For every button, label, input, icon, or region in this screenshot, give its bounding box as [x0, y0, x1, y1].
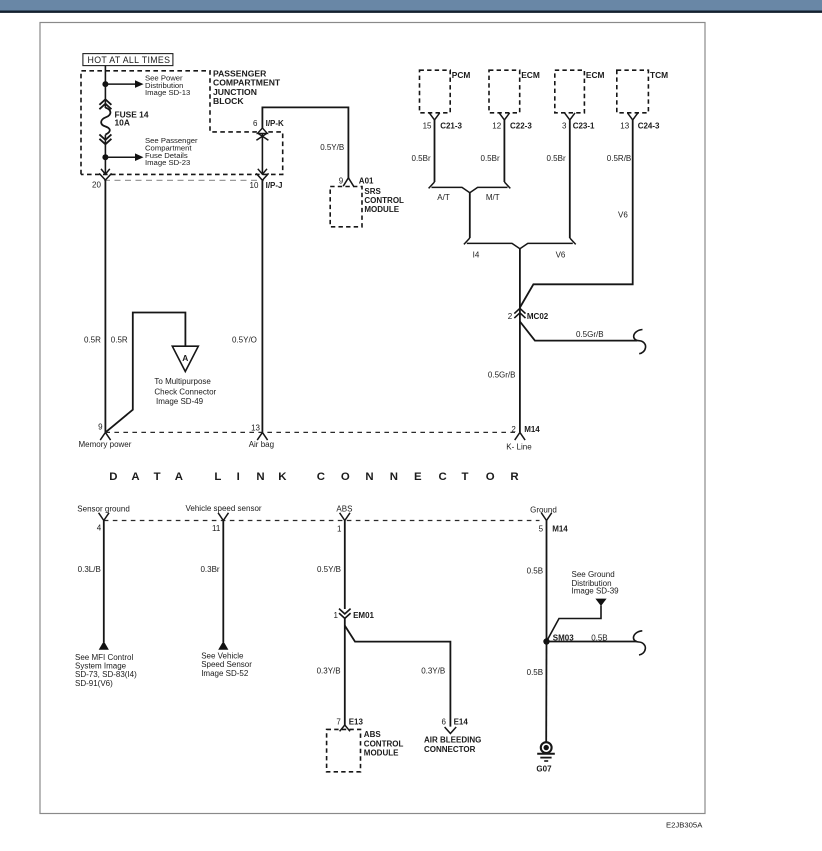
svg-text:15: 15	[423, 121, 432, 130]
svg-text:ABS: ABS	[364, 730, 382, 739]
wire 0.5B down to G07	[545, 642, 547, 742]
svg-text:0.5Br: 0.5Br	[547, 154, 566, 163]
svg-text:CONTROL: CONTROL	[364, 196, 404, 205]
svg-text:See Ground: See Ground	[572, 570, 615, 579]
svg-text:To Multipurpose: To Multipurpose	[154, 377, 211, 386]
node junction dot top	[102, 81, 108, 87]
svg-text:E2JB305A: E2JB305A	[666, 820, 703, 829]
wire from C21-3 (0.5Br)	[434, 120, 436, 182]
svg-text:6: 6	[253, 119, 258, 128]
wire 0.5B right to pigtail	[547, 641, 638, 643]
svg-text:SD-73, SD-83(I4): SD-73, SD-83(I4)	[75, 670, 137, 679]
svg-text:20: 20	[92, 181, 101, 190]
module box PCM C21-3	[420, 70, 471, 130]
svg-text:I4: I4	[473, 251, 480, 260]
note To Multipurpose Check Connector	[154, 377, 216, 406]
wire 0.5B down to SM03	[546, 521, 548, 642]
label HOT AT ALL TIMES	[83, 54, 173, 66]
svg-text:ECM: ECM	[586, 70, 605, 80]
svg-text:Image SD-49: Image SD-49	[156, 397, 204, 406]
wire air bag: I/P-J down to DLC pin 13	[261, 180, 263, 432]
splice SM03	[543, 633, 574, 644]
module box ABS control module	[327, 729, 404, 771]
wire branch 0.5Gr/B to pigtail	[520, 322, 637, 341]
svg-text:C22-3: C22-3	[510, 121, 532, 130]
svg-text:G07: G07	[536, 765, 552, 774]
svg-text:EM01: EM01	[353, 611, 374, 620]
svg-text:ECM: ECM	[521, 70, 540, 80]
pin 11 Vehicle speed sensor	[186, 504, 262, 533]
note See MFI Control	[75, 653, 137, 688]
svg-text:7: 7	[336, 718, 341, 727]
pin 20 connector symbol	[92, 169, 112, 190]
svg-text:0.5B: 0.5B	[591, 633, 607, 642]
svg-text:MODULE: MODULE	[364, 205, 399, 214]
svg-text:C24-3: C24-3	[638, 121, 660, 130]
wire memory power: pin20 down to DLC pin 9	[104, 180, 106, 432]
label AIR BLEEDING CONNECTOR	[424, 736, 481, 754]
svg-text:1: 1	[334, 611, 339, 620]
off-page triangle (MFI)	[99, 641, 109, 650]
wire 0.3Br down	[222, 521, 224, 643]
wire 0.3L/B down	[103, 521, 105, 643]
svg-text:ABS: ABS	[336, 504, 352, 513]
svg-text:Check Connector: Check Connector	[154, 387, 216, 396]
svg-text:0.5R: 0.5R	[84, 336, 101, 345]
diagram frame	[40, 23, 705, 814]
off-page triangle (VSS)	[218, 641, 228, 650]
connector I/P-J pin 10	[250, 169, 283, 190]
svg-text:13: 13	[620, 121, 629, 130]
svg-text:4: 4	[97, 524, 102, 533]
svg-text:CONTROL: CONTROL	[364, 739, 404, 748]
svg-text:A: A	[182, 353, 188, 363]
svg-text:TCM: TCM	[650, 70, 668, 80]
svg-text:9: 9	[339, 176, 344, 185]
node junction dot bottom	[102, 154, 108, 160]
connector MC02 pin 2	[508, 308, 549, 321]
module box TCM C24-3	[617, 70, 668, 130]
wire merge output down	[469, 193, 471, 238]
svg-text:10: 10	[250, 181, 259, 190]
svg-text:I/P-J: I/P-J	[266, 181, 283, 190]
svg-text:V6: V6	[556, 251, 566, 260]
svg-text:C23-1: C23-1	[573, 121, 595, 130]
wire	[104, 157, 106, 174]
branch to ground distribution triangle	[547, 606, 602, 642]
arrow to See Passenger Compartment Fuse Details	[105, 136, 198, 167]
DLC lower dashed rail	[104, 520, 540, 522]
svg-text:E13: E13	[349, 718, 364, 727]
svg-text:Image SD-39: Image SD-39	[572, 586, 620, 595]
connector face line (grey dashed) between pin 20 and pin 10	[104, 179, 264, 181]
svg-text:Image SD-23: Image SD-23	[145, 158, 190, 167]
svg-text:SRS: SRS	[364, 187, 381, 196]
svg-text:6: 6	[441, 718, 446, 727]
svg-text:A01: A01	[359, 176, 374, 185]
svg-text:See Vehicle: See Vehicle	[201, 651, 244, 660]
svg-text:K- Line: K- Line	[506, 442, 532, 451]
wire from HOT box into junction block	[104, 66, 106, 84]
fuse top chevrons	[99, 99, 111, 109]
fuse F14 squiggle symbol	[101, 108, 110, 135]
pigtail curl	[634, 330, 646, 354]
svg-text:See MFI Control: See MFI Control	[75, 653, 133, 662]
svg-text:Sensor ground: Sensor ground	[77, 504, 129, 513]
svg-text:Image SD-13: Image SD-13	[145, 88, 190, 97]
svg-text:0.5B: 0.5B	[527, 668, 543, 677]
wire from C22-3 (0.5Br)	[503, 120, 505, 182]
DLC upper dashed rail	[105, 431, 515, 433]
merge A/T M/T	[429, 182, 511, 202]
svg-text:0.5Y/O: 0.5Y/O	[232, 336, 257, 345]
svg-text:3: 3	[562, 121, 567, 130]
svg-text:A/T: A/T	[437, 193, 450, 202]
svg-text:0.5Br: 0.5Br	[481, 154, 500, 163]
wire 0.5Y/B down to EM01	[344, 521, 346, 610]
top blue banner	[0, 0, 822, 11]
pin 13 Air bag	[249, 423, 274, 448]
svg-text:Ground: Ground	[530, 505, 557, 514]
svg-text:13: 13	[251, 423, 260, 432]
svg-text:MODULE: MODULE	[364, 749, 399, 758]
wire main down to MC02	[519, 249, 521, 433]
connector I/P-K pin 6	[253, 119, 284, 140]
pin 5 M14 Ground	[530, 505, 568, 533]
merge I4 V6	[464, 238, 576, 260]
note See Vehicle Speed Sensor	[201, 651, 252, 678]
wire from C24-3 (0.5R/B)	[520, 120, 633, 308]
pin 6 E14 arrow	[441, 718, 468, 734]
pin 9 Memory power	[79, 423, 132, 449]
svg-text:CONNECTOR: CONNECTOR	[424, 745, 476, 754]
svg-text:9: 9	[98, 423, 103, 432]
svg-text:0.5Br: 0.5Br	[412, 154, 431, 163]
wire branch to E14	[345, 626, 451, 727]
wire I/P-K up and over to SRS A01	[262, 107, 348, 178]
off-page connector triangle A	[172, 346, 198, 371]
note See Ground Distribution	[572, 570, 620, 595]
svg-text:SD-91(V6): SD-91(V6)	[75, 679, 113, 688]
svg-text:0.5Y/B: 0.5Y/B	[320, 143, 344, 152]
wire	[104, 135, 106, 158]
svg-text:Image SD-52: Image SD-52	[201, 669, 249, 678]
wire	[104, 84, 106, 108]
svg-text:M/T: M/T	[486, 193, 500, 202]
pin 4 Sensor ground	[77, 504, 129, 532]
svg-text:11: 11	[212, 524, 221, 533]
svg-text:AIR BLEEDING: AIR BLEEDING	[424, 736, 481, 745]
svg-text:0.5B: 0.5B	[527, 567, 543, 576]
svg-text:0.3Br: 0.3Br	[200, 565, 219, 574]
connector EM01 pin 1	[334, 609, 375, 621]
svg-text:0.5Y/B: 0.5Y/B	[317, 565, 341, 574]
wire EM01 down to E13	[344, 618, 346, 725]
module box ECM C23-1	[555, 70, 605, 130]
pin 2 M14 K-Line	[506, 425, 540, 451]
svg-text:0.5Gr/B: 0.5Gr/B	[576, 330, 604, 339]
svg-text:Memory power: Memory power	[79, 440, 132, 449]
arrow to See Power Distribution	[105, 74, 190, 98]
wire I/P-K down to I/P-J	[261, 134, 263, 174]
svg-text:Air bag: Air bag	[249, 440, 274, 449]
svg-text:5: 5	[539, 525, 544, 534]
off-page triangle (ground distribution)	[595, 599, 606, 606]
module box ECM C22-3	[489, 70, 540, 130]
svg-text:I/P-K: I/P-K	[266, 119, 284, 128]
svg-text:0.5Gr/B: 0.5Gr/B	[488, 371, 516, 380]
svg-text:0.5R/B: 0.5R/B	[607, 154, 631, 163]
svg-text:MC02: MC02	[527, 312, 549, 321]
svg-text:2: 2	[508, 312, 513, 321]
svg-text:Speed Sensor: Speed Sensor	[201, 660, 252, 669]
fuse bottom chevrons	[99, 134, 111, 144]
svg-text:0.3Y/B: 0.3Y/B	[421, 667, 445, 676]
op SRS control module box	[330, 187, 404, 227]
svg-text:0.3L/B: 0.3L/B	[78, 565, 101, 574]
ground G07 symbol	[536, 742, 554, 773]
svg-text:E14: E14	[454, 718, 469, 727]
svg-text:BLOCK: BLOCK	[213, 96, 244, 106]
svg-text:M14: M14	[552, 525, 568, 534]
svg-text:System Image: System Image	[75, 662, 127, 671]
svg-text:10A: 10A	[115, 118, 130, 128]
pin 9 connector A01	[339, 176, 374, 186]
svg-text:HOT AT ALL TIMES: HOT AT ALL TIMES	[88, 55, 171, 65]
svg-text:0.3Y/B: 0.3Y/B	[317, 667, 341, 676]
pigtail curl	[633, 631, 645, 655]
wire branch to multipurpose check connector	[105, 313, 185, 433]
svg-text:0.5R: 0.5R	[111, 336, 128, 345]
svg-text:C21-3: C21-3	[440, 121, 462, 130]
passenger compartment junction block (dashed outline)	[81, 71, 283, 175]
svg-text:Vehicle speed sensor: Vehicle speed sensor	[186, 504, 262, 513]
svg-text:1: 1	[337, 525, 342, 534]
pin 1 ABS	[336, 504, 352, 533]
svg-text:PCM: PCM	[452, 70, 471, 80]
wire from C23-1 (0.5Br)	[569, 120, 571, 238]
svg-text:V6: V6	[618, 210, 628, 219]
pin 7 E13	[336, 718, 363, 732]
svg-text:M14: M14	[524, 425, 540, 434]
svg-text:12: 12	[492, 121, 501, 130]
